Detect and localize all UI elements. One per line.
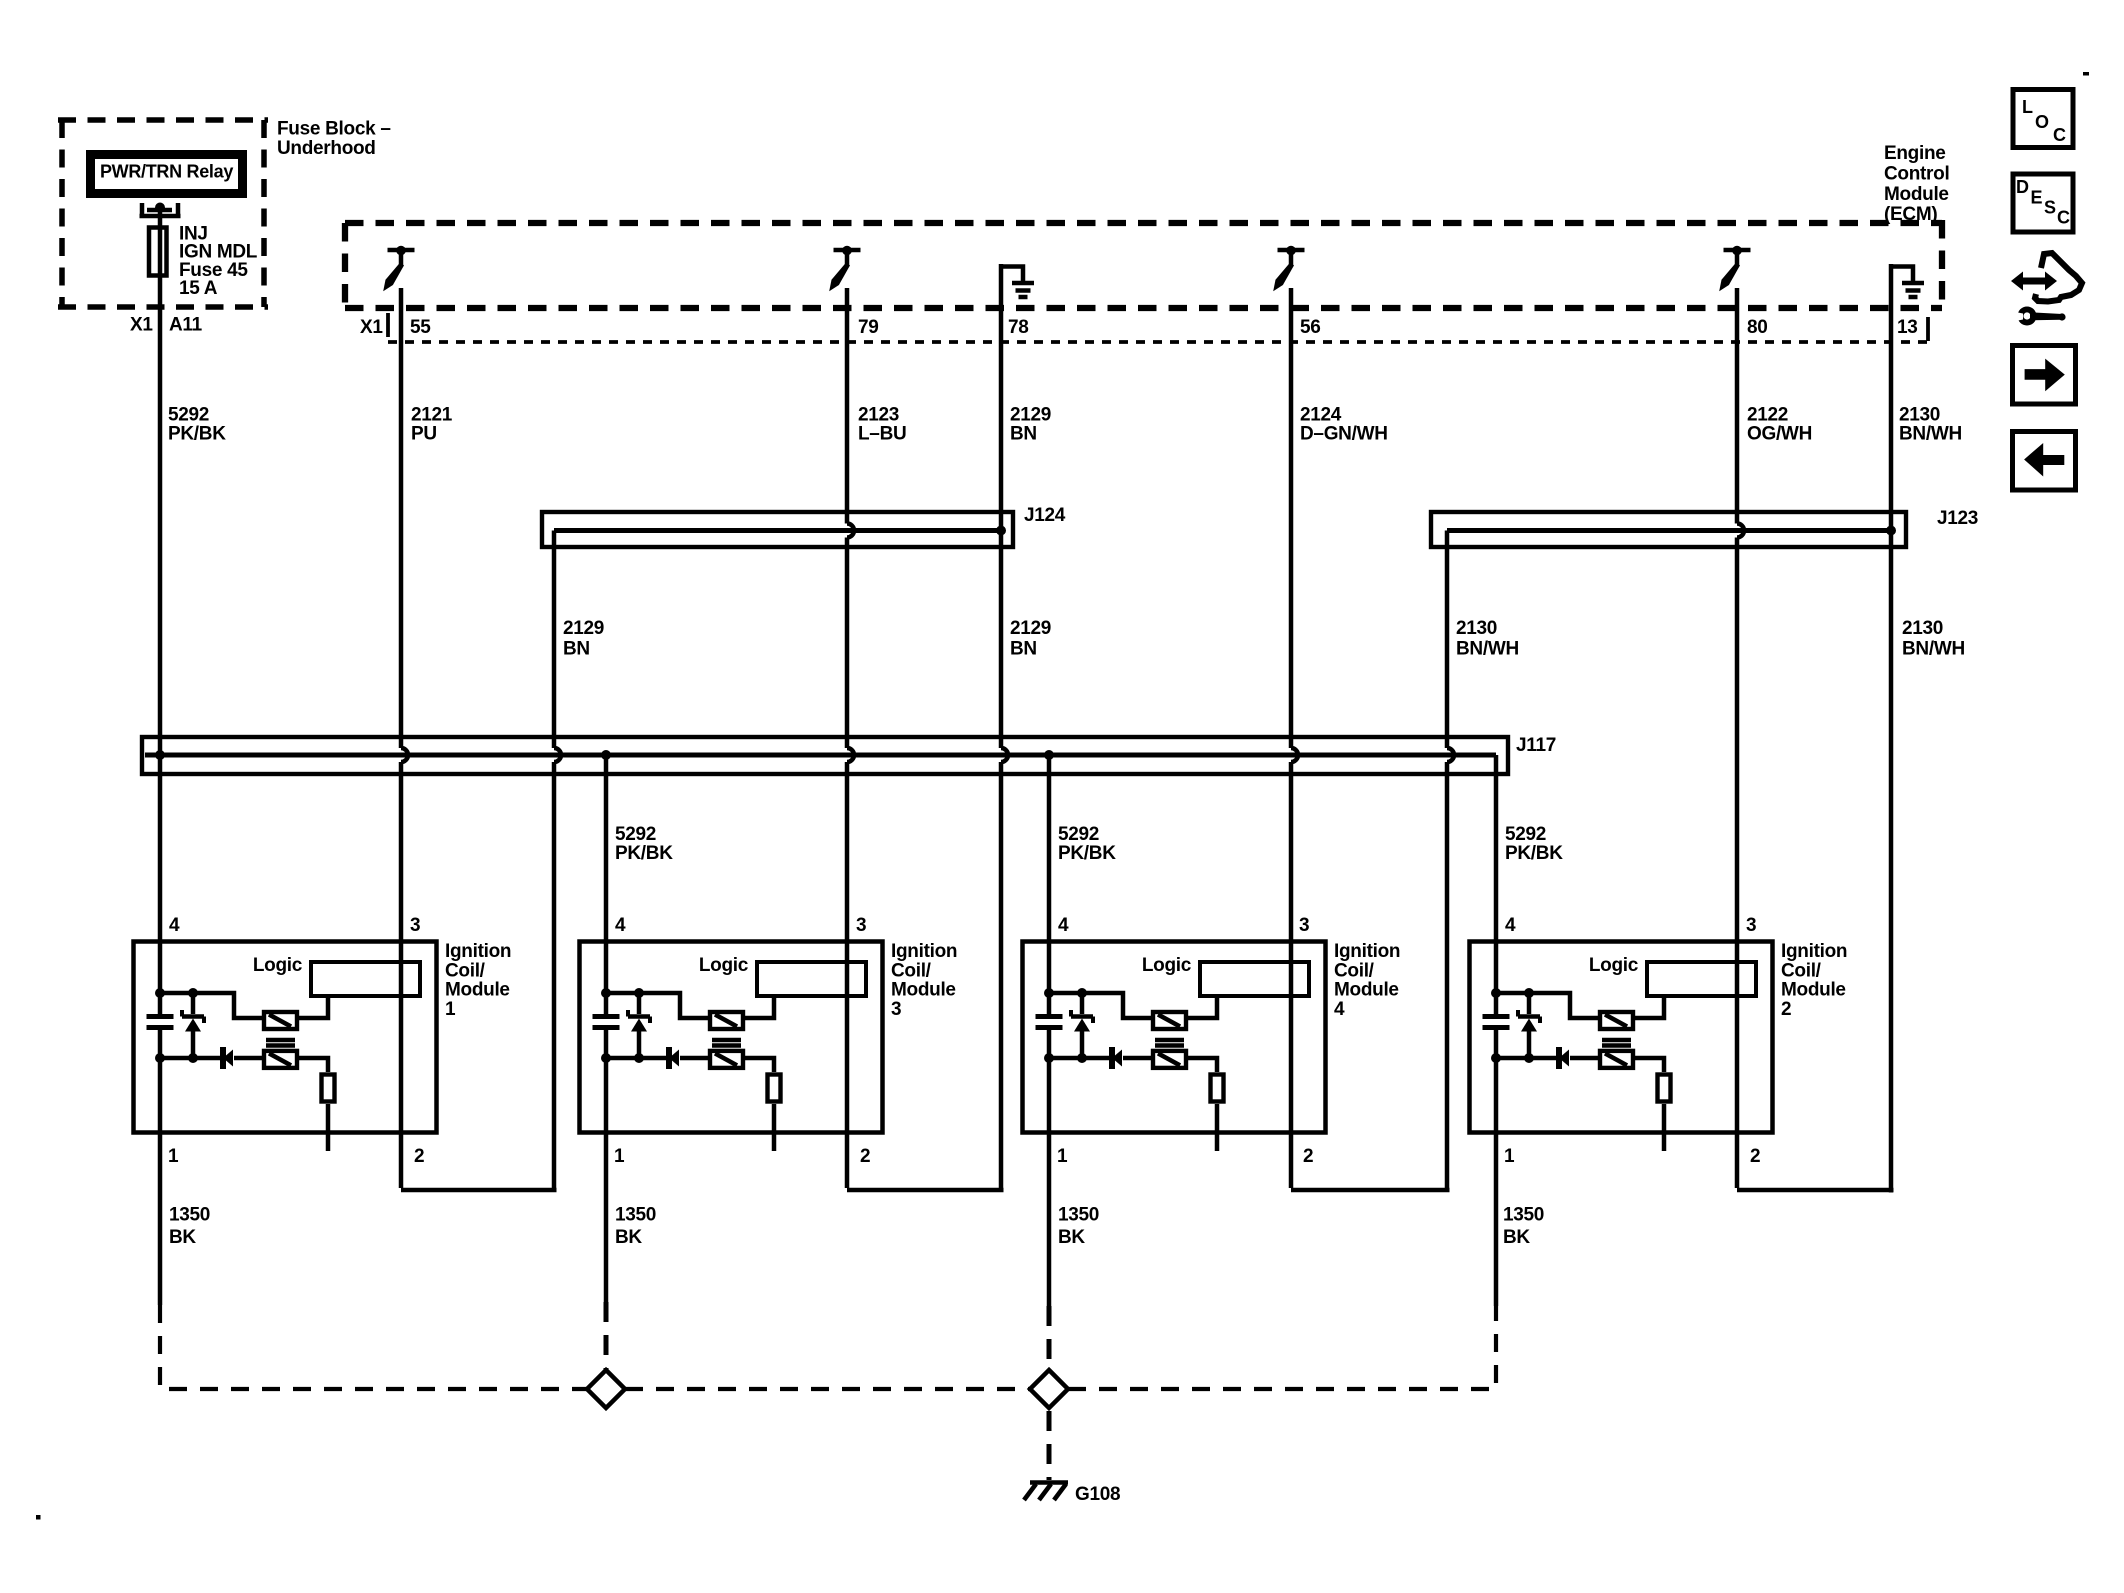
svg-text:Module: Module [891, 980, 956, 1001]
coil 4 logic block [1142, 955, 1309, 996]
svg-text:Coil/: Coil/ [1334, 960, 1375, 981]
svg-text:2: 2 [1303, 1146, 1313, 1167]
wire logic to upper coupler coil 2 [1635, 998, 1664, 1018]
relay K: PWR/TRN Relay [91, 155, 243, 194]
zener diode coil 2 [1518, 993, 1540, 1058]
svg-text:5292: 5292 [1505, 824, 1546, 845]
svg-text:D–GN/WH: D–GN/WH [1300, 424, 1388, 445]
ignition coil/module 4 box [1023, 942, 1326, 1133]
wire lower coupler to resistor coil 1 [299, 1058, 328, 1072]
svg-text:1: 1 [445, 999, 456, 1020]
ECM internal ground symbol pin 13 [1891, 267, 1924, 298]
wire 2130 BN/WH ECM 13 through J123 [1889, 264, 1894, 1193]
coil 3 pin number labels [614, 915, 870, 1167]
splice bus J117 outer box [142, 737, 1508, 774]
diode coil 2 [1559, 1047, 1598, 1069]
resistor stub coil 1 [326, 1104, 331, 1151]
wire 1350 BK coil 1 pin 1 dashed [160, 1305, 587, 1389]
svg-text:Module: Module [1334, 980, 1399, 1001]
svg-text:3: 3 [1299, 915, 1309, 936]
svg-text:2130: 2130 [1899, 405, 1940, 426]
ignition coil/module 2 box [1470, 942, 1773, 1133]
wire 1350 BK dashed bus between splices [625, 1387, 1030, 1391]
svg-text:BN/WH: BN/WH [1899, 424, 1962, 445]
J124 label [1024, 505, 1066, 526]
svg-text:L–BU: L–BU [858, 424, 906, 445]
svg-text:2: 2 [1750, 1146, 1760, 1167]
ground G108 symbol [1024, 1483, 1068, 1501]
optocoupler upper coil 4 [1153, 1012, 1186, 1029]
svg-text:80: 80 [1747, 317, 1768, 338]
svg-text:BK: BK [1503, 1227, 1530, 1248]
coil 4 name label [1334, 941, 1400, 1020]
svg-text:1: 1 [168, 1146, 179, 1167]
zener diode coil 1 [182, 993, 204, 1058]
svg-text:2130: 2130 [1902, 618, 1943, 639]
wire label 1350 BK coil 4 [1058, 1205, 1099, 1249]
wire 5292 PK/BK J117 to coil 4 pin 4 [1047, 755, 1052, 1306]
svg-text:15 A: 15 A [179, 278, 218, 299]
fuse block label [277, 119, 391, 160]
wire lower coupler to resistor coil 2 [1635, 1058, 1664, 1072]
junction dot relay terminal [155, 203, 165, 213]
svg-text:(ECM): (ECM) [1884, 204, 1937, 225]
optocoupler upper coil 3 [710, 1012, 743, 1029]
wire label 5292 PK/BK coil 3 [615, 824, 673, 864]
svg-text:1350: 1350 [169, 1205, 210, 1226]
svg-text:2129: 2129 [1010, 405, 1051, 426]
ECM internal ground symbol pin 78 [1001, 267, 1034, 298]
svg-text:2: 2 [414, 1146, 424, 1167]
svg-text:1350: 1350 [1503, 1205, 1544, 1226]
resistor coil 2 [1658, 1075, 1671, 1102]
ECM driver output pin 80 [1719, 246, 1750, 292]
wire 5292 PK/BK relay A11 to coil 1 pin 4 [158, 210, 163, 1305]
coil 1 internal top wire [160, 993, 262, 1018]
svg-text:BN: BN [1010, 424, 1037, 445]
wire label 2129 BN mid [1010, 618, 1051, 660]
svg-text:3: 3 [1746, 915, 1756, 936]
svg-text:2122: 2122 [1747, 405, 1788, 426]
svg-text:PWR/TRN Relay: PWR/TRN Relay [100, 162, 233, 182]
capacitor coil 1 [147, 1017, 174, 1028]
svg-text:2124: 2124 [1300, 405, 1342, 426]
optocoupler upper coil 2 [1600, 1012, 1633, 1029]
svg-text:BK: BK [615, 1227, 642, 1248]
wire 1350 BK coil 3 pin 1 dashed [604, 1302, 609, 1373]
svg-text:78: 78 [1008, 317, 1029, 338]
coil 2 internal top wire [1496, 993, 1598, 1018]
svg-text:Ignition: Ignition [891, 941, 957, 962]
junction dots J117 [155, 750, 1054, 760]
wire lower coupler to resistor coil 4 [1188, 1058, 1217, 1072]
junction dots coil 3 [601, 988, 644, 1063]
svg-text:2123: 2123 [858, 405, 899, 426]
svg-text:Underhood: Underhood [277, 138, 376, 159]
wire logic to upper coupler coil 3 [745, 998, 774, 1018]
coil 3 internal top wire [606, 993, 708, 1018]
junction dot J124 wire 2129 [996, 526, 1006, 536]
wire label 2129 BN top [1010, 405, 1051, 445]
svg-text:Logic: Logic [1589, 955, 1639, 976]
coil 4 internal bottom wire [1049, 1056, 1110, 1061]
svg-text:Control: Control [1884, 163, 1949, 184]
svg-text:3: 3 [891, 999, 901, 1020]
svg-text:2: 2 [1781, 999, 1791, 1020]
coil 1 logic block [253, 955, 420, 996]
splice bus J124 outer box [542, 512, 1013, 547]
svg-text:J124: J124 [1024, 505, 1066, 526]
svg-text:1350: 1350 [1058, 1205, 1099, 1226]
junction dots coil 1 [155, 988, 198, 1063]
svg-text:PK/BK: PK/BK [168, 424, 226, 445]
svg-text:C: C [2053, 125, 2066, 145]
svg-text:Logic: Logic [1142, 955, 1192, 976]
svg-text:C: C [2057, 208, 2070, 228]
svg-text:A11: A11 [169, 315, 203, 336]
fuse block underhood dashed box [58, 120, 268, 307]
svg-text:1: 1 [1057, 1146, 1068, 1167]
svg-text:G108: G108 [1075, 1484, 1120, 1505]
svg-text:BK: BK [1058, 1227, 1085, 1248]
wire 2122 OG/WH ECM 80 to coil 2 pin 3 [1737, 288, 1744, 1188]
wire label 2129 BN left [563, 618, 604, 660]
svg-text:PK/BK: PK/BK [1058, 843, 1116, 864]
coil 4 internal top wire [1049, 993, 1151, 1018]
svg-text:4: 4 [169, 915, 180, 936]
svg-text:1350: 1350 [615, 1205, 656, 1226]
fuse F45: INJ IGN MDL Fuse 45 15 A [149, 228, 167, 276]
svg-text:3: 3 [410, 915, 420, 936]
ECM driver output pin 56 [1273, 246, 1304, 292]
capacitor coil 3 [593, 1017, 620, 1028]
svg-text:1: 1 [614, 1146, 625, 1167]
wire label 1350 BK coil 3 [615, 1205, 656, 1249]
svg-text:Ignition: Ignition [1781, 941, 1847, 962]
svg-text:PU: PU [411, 424, 437, 445]
junction dots coil 2 [1491, 988, 1534, 1063]
wire lower coupler to resistor coil 3 [745, 1058, 774, 1072]
ignition coil/module 1 box [134, 942, 437, 1133]
svg-text:Fuse Block –: Fuse Block – [277, 119, 391, 140]
svg-text:BN/WH: BN/WH [1902, 639, 1965, 660]
wire 1350 BK coil 4 pin 1 dashed [1047, 1306, 1052, 1373]
svg-text:4: 4 [615, 915, 626, 936]
wire label 5292 PK/BK coil 4 [1058, 824, 1116, 864]
svg-text:4: 4 [1505, 915, 1516, 936]
svg-text:2129: 2129 [1010, 618, 1051, 639]
diode coil 3 [669, 1047, 708, 1069]
wire 1350 BK coil 2 pin 1 dashed [1068, 1306, 1496, 1389]
wire label 2121 PU [411, 405, 453, 445]
wire label 5292 PK/BK coil 2 [1505, 824, 1563, 864]
wire label 5292 PK/BK top [168, 405, 226, 445]
wire label 2130 BN/WH mid [1902, 618, 1965, 660]
svg-text:OG/WH: OG/WH [1747, 424, 1812, 445]
splice diamond S right [1030, 1370, 1068, 1408]
wire 5292 PK/BK J117 to coil 3 pin 4 [604, 755, 609, 1302]
svg-text:1: 1 [1504, 1146, 1515, 1167]
J117 label [1516, 735, 1556, 756]
ECM driver output pin 55 [383, 246, 414, 292]
svg-text:O: O [2035, 112, 2049, 132]
svg-text:5292: 5292 [168, 405, 209, 426]
optocoupler lower coil 4 [1153, 1051, 1186, 1068]
wire coil 1 pin 2 to J124 branch [401, 1188, 557, 1193]
coil 4 pin number labels [1057, 915, 1313, 1167]
wire label 2122 OG/WH [1747, 405, 1812, 445]
coil 1 pin number labels [168, 915, 424, 1167]
wire label 2123 L-BU [858, 405, 906, 445]
wire coil 4 pin 2 jog [1291, 1188, 1450, 1193]
svg-text:BN: BN [563, 639, 590, 660]
svg-text:3: 3 [856, 915, 866, 936]
wire label 1350 BK coil 2 [1503, 1205, 1544, 1249]
wire 2129 BN ECM 78 through J124 [1001, 264, 1008, 1192]
coil 1 internal bottom wire [160, 1056, 221, 1061]
svg-text:5292: 5292 [615, 824, 656, 845]
coupling bars coil 3 [712, 1040, 741, 1046]
icon LOC box [2013, 90, 2073, 148]
resistor stub coil 2 [1662, 1104, 1667, 1151]
wire 2123 L-BU ECM 79 to coil 3 pin 3 [847, 288, 854, 1188]
svg-text:4: 4 [1058, 915, 1069, 936]
svg-text:BN: BN [1010, 639, 1037, 660]
wire coil 2 pin 2 jog [1737, 1188, 1894, 1193]
svg-text:J117: J117 [1516, 735, 1556, 756]
coil 3 logic block [699, 955, 866, 996]
svg-text:PK/BK: PK/BK [1505, 843, 1563, 864]
resistor stub coil 3 [772, 1104, 777, 1151]
wire logic to upper coupler coil 4 [1188, 998, 1217, 1018]
ECM name label: Engine Control Module (ECM) [1884, 143, 1949, 225]
svg-text:2121: 2121 [411, 405, 453, 426]
wire logic to upper coupler coil 1 [299, 998, 328, 1018]
svg-text:Coil/: Coil/ [891, 960, 932, 981]
svg-text:Module: Module [1884, 184, 1949, 205]
fuse 45 label [179, 223, 258, 299]
svg-text:J123: J123 [1937, 508, 1978, 529]
optocoupler upper coil 1 [264, 1012, 297, 1029]
coil 3 name label [891, 941, 957, 1020]
coupling bars coil 1 [266, 1040, 295, 1046]
svg-text:2130: 2130 [1456, 618, 1497, 639]
coil 2 internal bottom wire [1496, 1056, 1557, 1061]
svg-text:79: 79 [858, 317, 879, 338]
svg-text:13: 13 [1897, 317, 1918, 338]
svg-text:Module: Module [445, 980, 510, 1001]
svg-text:5292: 5292 [1058, 824, 1099, 845]
capacitor coil 4 [1036, 1017, 1063, 1028]
J123 label [1937, 508, 1978, 529]
resistor stub coil 4 [1215, 1104, 1220, 1151]
wire label 2130 BN/WH left [1456, 618, 1519, 660]
coupling bars coil 2 [1602, 1040, 1631, 1046]
svg-text:D: D [2016, 177, 2029, 197]
ECM connector thin dashed line [388, 313, 1928, 342]
svg-text:4: 4 [1334, 999, 1345, 1020]
resistor coil 4 [1211, 1075, 1224, 1102]
coil 1 name label [445, 941, 511, 1020]
ignition coil/module 3 box [580, 942, 883, 1133]
wire label 2130 BN/WH top [1899, 405, 1962, 445]
wire 2121 PU ECM 55 to coil 1 pin 3 [401, 288, 408, 1188]
svg-text:Engine: Engine [1884, 143, 1946, 164]
optocoupler lower coil 1 [264, 1051, 297, 1068]
optocoupler lower coil 2 [1600, 1051, 1633, 1068]
tiny mark bottom left [36, 1515, 41, 1520]
svg-text:S: S [2044, 198, 2056, 218]
wire coil 3 pin 2 jog [847, 1188, 1004, 1193]
icon DESC box [2013, 174, 2073, 232]
ECM dashed box [345, 220, 1942, 311]
capacitor coil 2 [1483, 1017, 1510, 1028]
wire 2130 BN/WH J123 to coil 4 pin 2 [1447, 531, 1454, 1193]
ECM driver output pin 79 [829, 246, 860, 292]
icon arrow left box [2013, 432, 2076, 491]
diode coil 4 [1112, 1047, 1151, 1069]
coil 2 logic block [1589, 955, 1756, 996]
svg-text:BN/WH: BN/WH [1456, 639, 1519, 660]
wire 2129 BN J124 to coil 1 pin 2 [554, 531, 561, 1193]
coil 2 pin number labels [1504, 915, 1760, 1167]
zener diode coil 3 [628, 993, 650, 1058]
svg-text:Coil/: Coil/ [1781, 960, 1822, 981]
ECM pin number labels [360, 317, 1918, 338]
wire 5292 PK/BK J117 to coil 2 pin 4 [1494, 755, 1499, 1306]
splice bus J123 inner wire [1447, 528, 1891, 533]
svg-text:BK: BK [169, 1227, 196, 1248]
junction dot J123 wire 2130 [1886, 526, 1896, 536]
svg-text:L: L [2022, 97, 2033, 117]
connector X1 pin A11 labels [130, 315, 203, 336]
svg-text:2129: 2129 [563, 618, 604, 639]
svg-text:Coil/: Coil/ [445, 960, 486, 981]
splice diamond S left [587, 1370, 625, 1408]
resistor coil 3 [768, 1075, 781, 1102]
svg-text:Logic: Logic [253, 955, 303, 976]
splice bus J123 outer box [1431, 512, 1906, 547]
splice bus J124 inner wire [554, 528, 1001, 533]
icon arrow right box [2013, 346, 2076, 405]
splice bus J117 inner wire [145, 753, 1496, 758]
coil 3 internal bottom wire [606, 1056, 667, 1061]
tiny mark top right [2083, 72, 2089, 76]
zener diode coil 4 [1071, 993, 1093, 1058]
wire label 1350 BK coil 1 [169, 1205, 210, 1249]
wire label 2124 D-GN/WH [1300, 405, 1388, 445]
relay terminal clip [140, 203, 181, 216]
svg-text:Ignition: Ignition [445, 941, 511, 962]
resistor coil 1 [322, 1075, 335, 1102]
svg-text:55: 55 [410, 317, 431, 338]
svg-text:Ignition: Ignition [1334, 941, 1400, 962]
svg-text:56: 56 [1300, 317, 1321, 338]
svg-text:PK/BK: PK/BK [615, 843, 673, 864]
junction dots coil 4 [1044, 988, 1087, 1063]
coupling bars coil 4 [1155, 1040, 1184, 1046]
icon service wrench glyph [2011, 253, 2082, 326]
coil 2 name label [1781, 941, 1847, 1020]
diode coil 1 [223, 1047, 262, 1069]
wire dashed to ground G108 [1047, 1411, 1052, 1480]
svg-text:Logic: Logic [699, 955, 749, 976]
svg-text:X1: X1 [130, 315, 153, 336]
svg-text:E: E [2031, 188, 2043, 208]
wire 2124 D-GN/WH ECM 56 to coil 4 pin 3 [1291, 288, 1298, 1188]
svg-text:2: 2 [860, 1146, 870, 1167]
G108 label [1075, 1484, 1120, 1505]
optocoupler lower coil 3 [710, 1051, 743, 1068]
svg-text:Module: Module [1781, 980, 1846, 1001]
svg-text:X1: X1 [360, 317, 383, 338]
